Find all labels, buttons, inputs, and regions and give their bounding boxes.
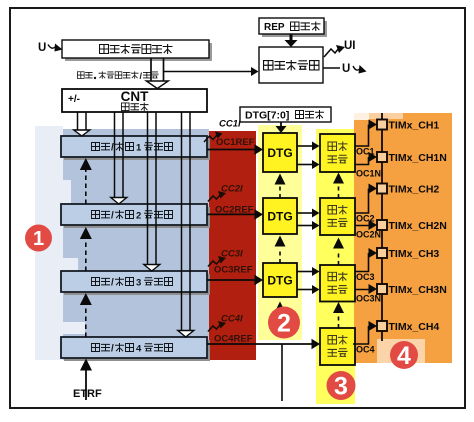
red CCxREF column bbox=[209, 131, 256, 360]
wire: dashed arrow output control 4 -> 3 bbox=[338, 314, 340, 328]
blue capture/compare panel bbox=[63, 129, 209, 360]
pale yellow DTG band (region 2) bbox=[258, 125, 302, 340]
wire: OC1REF line capture/compare 1 -> DTG1 bbox=[207, 149, 255, 151]
left pale panel (region 1 background) bbox=[35, 126, 63, 360]
marker circle 1 bbox=[25, 225, 52, 252]
wire: OC2REF line capture/compare 2 -> DTG2 bbox=[207, 213, 255, 215]
wire: DTG register -> DTG1 bbox=[280, 122, 282, 127]
svg-text:OC4: OC4 bbox=[356, 345, 375, 355]
marker circle 3 bbox=[327, 371, 356, 400]
wire: OC1 output to pin bbox=[355, 125, 369, 147]
svg-text:1: 1 bbox=[33, 228, 44, 250]
svg-text:TIMx_CH2: TIMx_CH2 bbox=[389, 184, 440, 196]
wire: dashed arrow DTG2 -> DTG1 bbox=[279, 186, 281, 198]
wire: hollow double arrow CNT -> capture/compare 4 bbox=[181, 112, 183, 331]
wire: hollow double arrow CNT -> capture/compare 2 bbox=[114, 112, 116, 198]
svg-text:/: / bbox=[111, 278, 114, 289]
wire: ETRF input arrow into capture/compare 4 bbox=[85, 370, 87, 400]
block: output control 2 (输出控制) bbox=[320, 198, 355, 235]
pad square TIMx_CH4 bbox=[377, 321, 387, 331]
wire: OC3N output to pin bbox=[355, 288, 369, 291]
wire: OC1N output to pin bbox=[355, 157, 369, 165]
wire: hollow double arrow CNT -> capture/compare 1 bbox=[77, 112, 79, 130]
svg-text:/: / bbox=[111, 143, 114, 154]
block: output control 3 (输出控制) bbox=[320, 265, 355, 302]
block: output control 4 (输出控制) bbox=[320, 328, 355, 365]
wire: zigzag event arrow CC1I bbox=[204, 135, 217, 142]
marker circle 4 bbox=[390, 341, 418, 369]
block: REP register (REP 寄存器) bbox=[259, 18, 324, 34]
block: repetition counter (重复计数器) bbox=[259, 47, 323, 83]
svg-text:2: 2 bbox=[136, 211, 141, 222]
svg-text:DTG[7:0]: DTG[7:0] bbox=[245, 110, 289, 122]
panel notch step 1 bbox=[63, 180, 71, 205]
svg-text:U: U bbox=[38, 42, 46, 54]
svg-text:CC1I: CC1I bbox=[219, 119, 241, 130]
svg-text:OC3N: OC3N bbox=[356, 294, 381, 304]
tan patch behind circle 4 bbox=[377, 339, 425, 363]
wire: squiggle arrow from U into auto-reload register bbox=[48, 45, 56, 49]
pad square TIMx_CH1 bbox=[377, 120, 387, 130]
wire: repetition counter U output bbox=[323, 67, 340, 69]
block: capture/compare 3 register (捕获/比较3寄存器) bbox=[61, 271, 207, 292]
svg-text:TIMx_CH3N: TIMx_CH3N bbox=[389, 284, 447, 296]
wire: OC3REF line capture/compare 3 -> DTG3 bbox=[207, 279, 255, 281]
wire: hollow double arrow auto-reload -> CNT bbox=[150, 58, 152, 81]
wire: branch from update line to repetition counter bbox=[164, 71, 252, 73]
wire: dashed arrow output control 3 -> 2 bbox=[338, 251, 340, 265]
wire: vertical stub from OC4REF line down bbox=[281, 344, 283, 401]
pad square TIMx_CH3 bbox=[377, 248, 387, 258]
white notch at orange top-left bbox=[354, 113, 369, 120]
svg-text:TIMx_CH3: TIMx_CH3 bbox=[389, 248, 440, 260]
svg-text:2: 2 bbox=[277, 310, 291, 338]
wire: hollow double arrow CNT -> capture/compare 3 bbox=[147, 112, 149, 265]
block: DTG3 dead-time generator bbox=[263, 263, 297, 297]
svg-text:DTG: DTG bbox=[267, 210, 292, 224]
pad square TIMx_CH1N bbox=[377, 152, 387, 162]
svg-text:TIMx_CH2N: TIMx_CH2N bbox=[389, 220, 447, 232]
svg-text:U: U bbox=[342, 63, 350, 75]
block: DTG2 dead-time generator bbox=[263, 198, 297, 234]
svg-text:DTG: DTG bbox=[267, 274, 292, 288]
wire: OC4 output to pin bbox=[353, 326, 369, 344]
pad square TIMx_CH3N bbox=[377, 284, 387, 294]
shadow of capture/compare 1 register box bbox=[64, 139, 210, 160]
pad square TIMx_CH2 bbox=[377, 184, 387, 194]
svg-text:+/-: +/- bbox=[68, 94, 80, 105]
svg-text:3: 3 bbox=[334, 373, 348, 401]
svg-text:OC1N: OC1N bbox=[356, 169, 381, 179]
wire: zigzag event arrow CC3I bbox=[208, 260, 220, 267]
wire: zigzag event arrow CC2I bbox=[208, 195, 220, 202]
svg-text:REP: REP bbox=[264, 22, 285, 33]
panel notch step 3 bbox=[63, 322, 85, 334]
block: CNT counter bbox=[62, 89, 207, 112]
svg-text:4: 4 bbox=[397, 342, 411, 370]
block: DTG1 dead-time generator bbox=[263, 133, 297, 172]
wire: zigzag event arrow CC4I bbox=[208, 325, 220, 332]
block: DTG[7:0] register (DTG[7:0]寄存器) bbox=[240, 107, 331, 122]
panel notch step 2 bbox=[63, 258, 78, 272]
svg-text:1: 1 bbox=[136, 143, 142, 154]
shadow of capture/compare 4 register box bbox=[64, 340, 210, 361]
wire: dashed feedback arrow capture 4 -> capture 3 bbox=[85, 305, 87, 337]
svg-text:OC2N: OC2N bbox=[356, 230, 381, 240]
wire: OC2 output to pin bbox=[355, 189, 369, 214]
bright yellow output-control band (region 3) bbox=[316, 129, 355, 404]
wire: REP register -> repetition counter (thick arrow) bbox=[290, 34, 293, 41]
block: capture/compare 4 register (捕获/比较4寄存器) bbox=[61, 337, 207, 358]
shadow of capture/compare 3 register box bbox=[64, 274, 210, 295]
orange output pin column (region 4) bbox=[354, 113, 452, 363]
block: capture/compare 1 register (捕获/比较1寄存器) bbox=[61, 136, 207, 157]
wire: dashed arrow output control 2 -> 1 bbox=[338, 186, 340, 198]
wire: OC4REF line from capture/compare 4 to output control 4 bbox=[207, 343, 312, 345]
marker circle 2 bbox=[268, 307, 300, 339]
pad square TIMx_CH2N bbox=[377, 220, 387, 230]
shadow of capture/compare 2 register box bbox=[64, 207, 210, 228]
block: auto-reload register (自动重载寄存器) bbox=[62, 40, 209, 58]
wire: zigzag to UI label bbox=[324, 48, 339, 57]
svg-text:UI: UI bbox=[344, 40, 356, 52]
svg-text:4: 4 bbox=[136, 344, 142, 355]
tan strip at orange top bbox=[369, 113, 403, 119]
svg-text:/: / bbox=[111, 344, 114, 355]
svg-text:DTG: DTG bbox=[267, 146, 292, 160]
svg-text:CNT: CNT bbox=[121, 89, 149, 104]
svg-text:OC3REF: OC3REF bbox=[214, 265, 253, 276]
block: output control 1 (输出控制) bbox=[320, 134, 355, 172]
shadow of auto-reload register box bbox=[65, 43, 212, 61]
wire: OC3 output to pin bbox=[355, 253, 369, 272]
svg-text:ETRF: ETRF bbox=[73, 388, 102, 400]
svg-text:OC1REF: OC1REF bbox=[216, 137, 255, 148]
block: capture/compare 2 register (捕获/比较2寄存器) bbox=[61, 204, 207, 225]
svg-text:TIMx_CH1: TIMx_CH1 bbox=[389, 120, 440, 132]
wire: dashed feedback arrow capture 3 -> capture 2 bbox=[85, 239, 87, 271]
wire: squiggle arrow after right U bbox=[353, 66, 361, 70]
svg-text:TIMx_CH1N: TIMx_CH1N bbox=[389, 152, 447, 164]
svg-text:OC4REF: OC4REF bbox=[214, 334, 253, 345]
wire: OC2N output to pin bbox=[355, 224, 369, 227]
wire: DTG3 outputs -> output control 3 bbox=[297, 271, 312, 273]
wire: dashed arrow up into DTG3 bbox=[279, 313, 281, 322]
wire: TIMx pad bus vertical line bbox=[381, 113, 383, 341]
label: stop clear up/down text (停止、清零或递增/递减) bbox=[77, 72, 84, 79]
svg-text:3: 3 bbox=[136, 278, 141, 289]
wire: DTG2 outputs -> output control 2 bbox=[297, 212, 312, 214]
svg-text:OC3: OC3 bbox=[356, 272, 375, 282]
wire: DTG1 outputs -> output control 1 bbox=[297, 145, 312, 147]
svg-text:/: / bbox=[111, 211, 114, 222]
svg-text:OC2REF: OC2REF bbox=[215, 205, 254, 216]
shadow of REP register box bbox=[262, 21, 327, 37]
wire: dashed arrow DTG3 -> DTG2 bbox=[279, 248, 281, 263]
svg-text:TIMx_CH4: TIMx_CH4 bbox=[389, 321, 440, 333]
wire: dashed feedback arrow capture 2 -> capture 1 bbox=[85, 170, 87, 204]
